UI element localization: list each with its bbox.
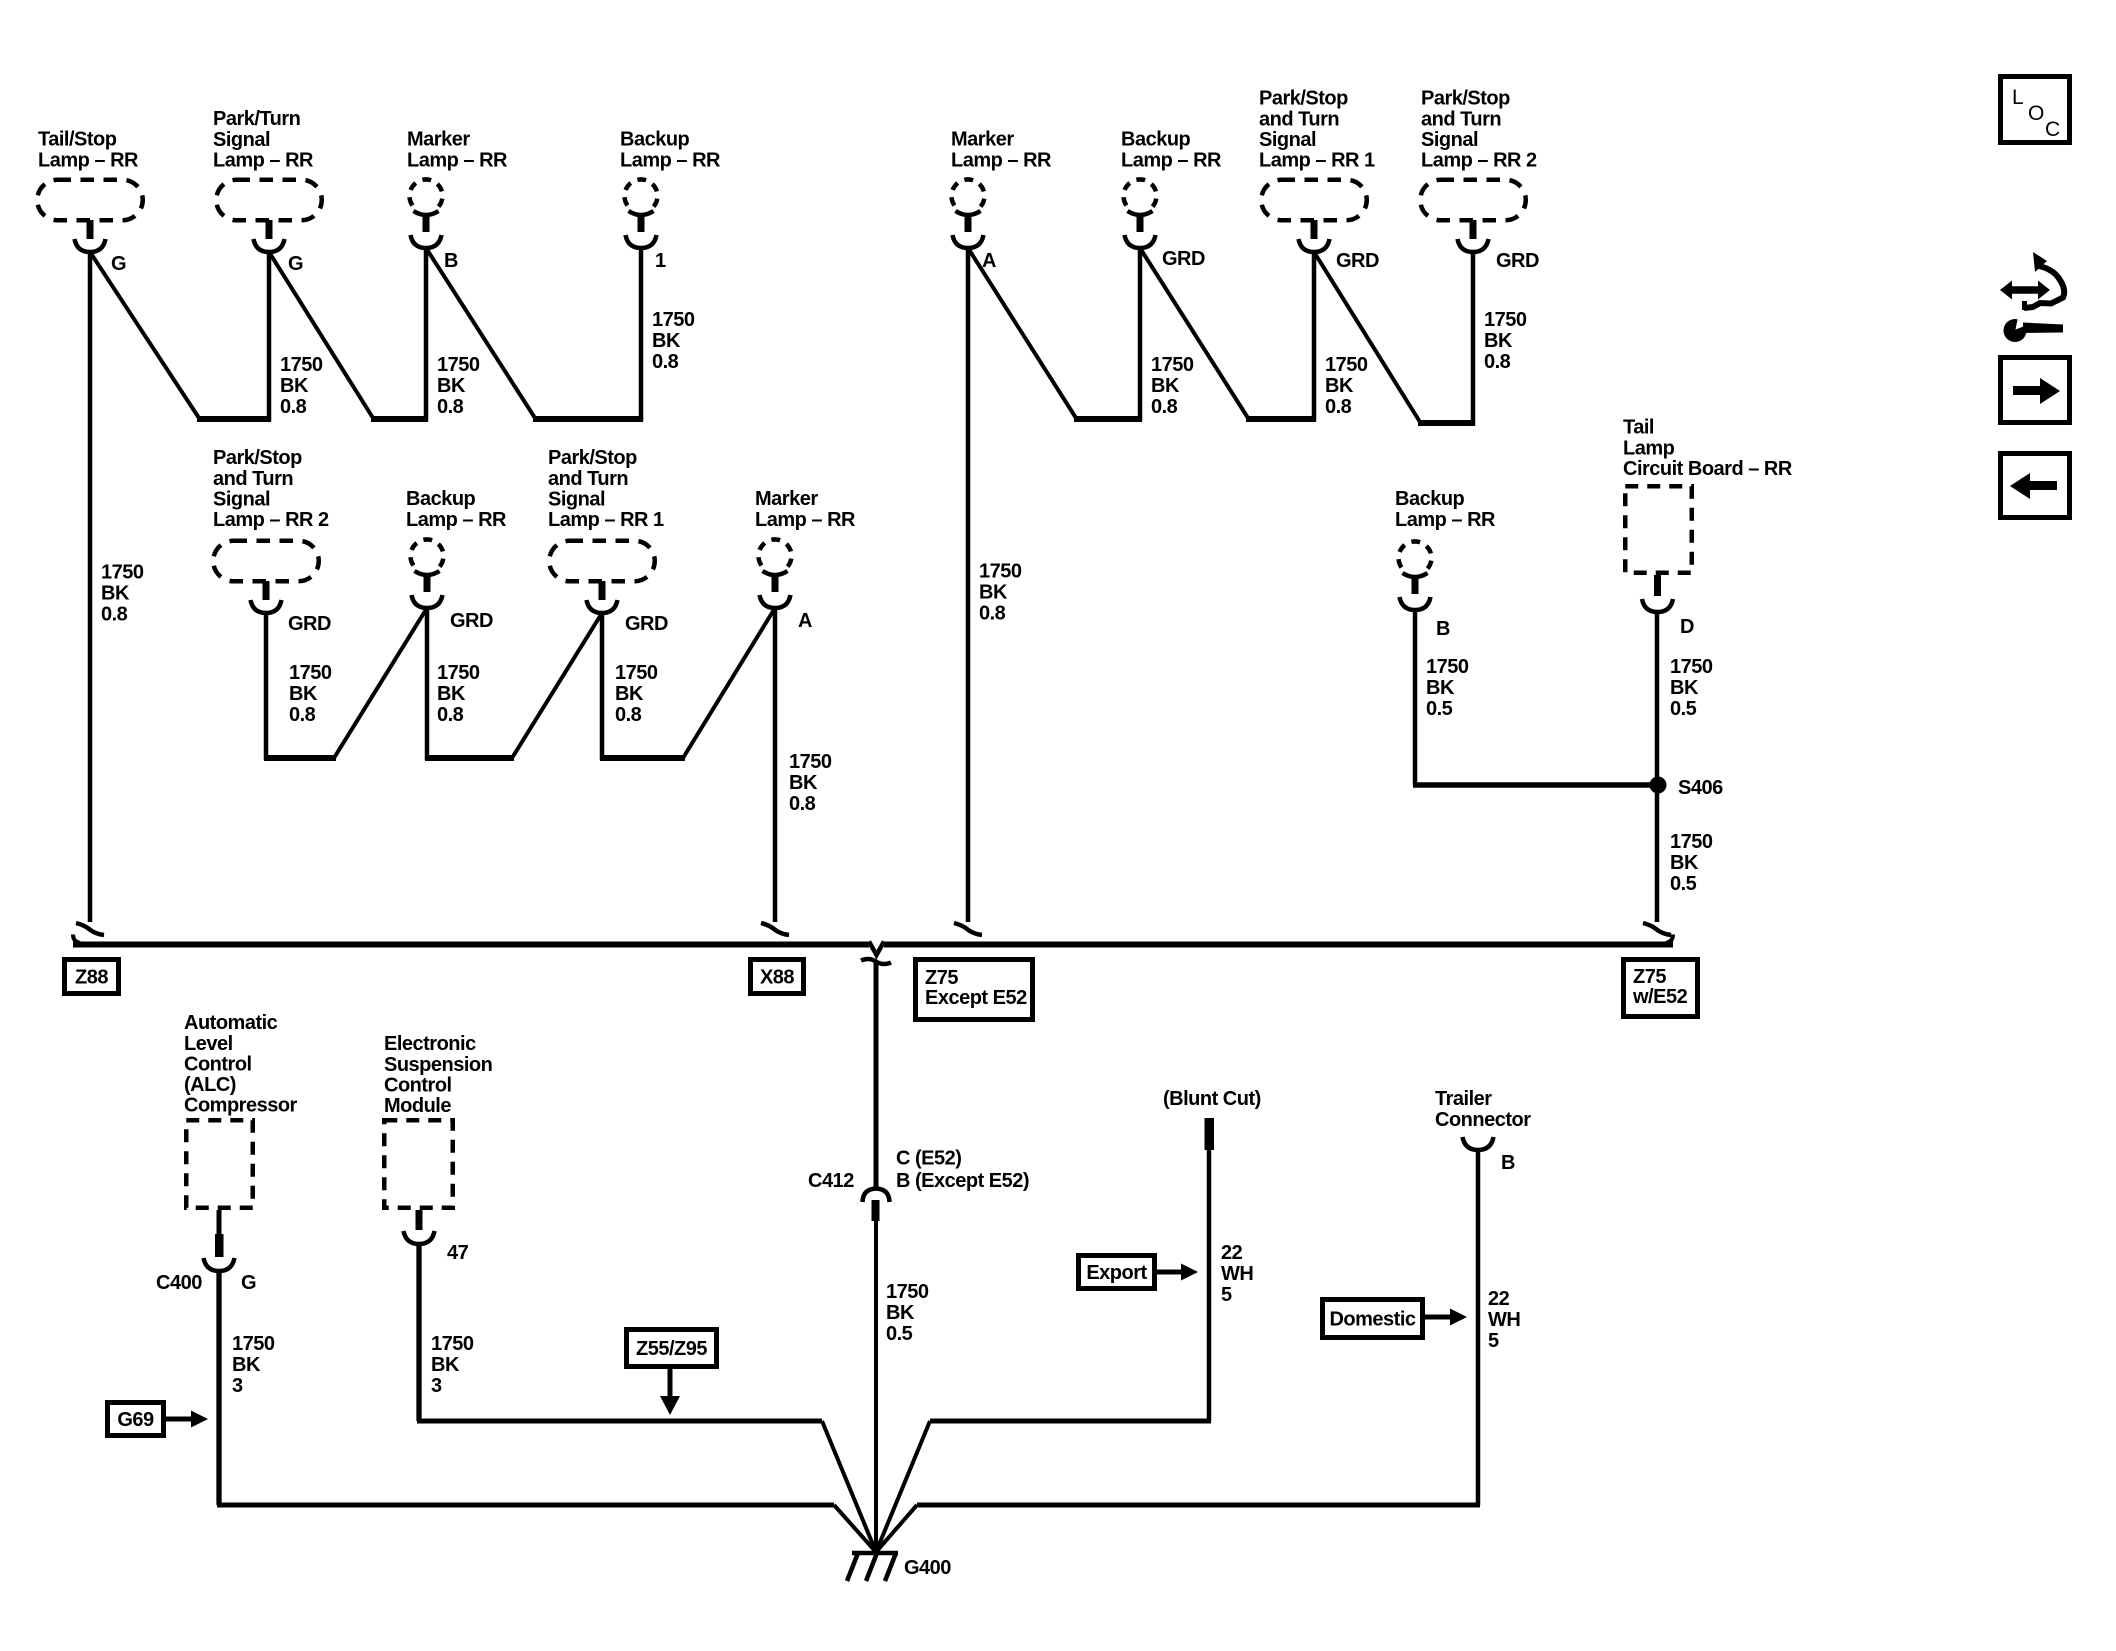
svg-text:BK: BK <box>280 375 309 397</box>
svg-text:BK: BK <box>886 1302 915 1324</box>
svg-text:Backup: Backup <box>406 488 476 510</box>
svg-text:B (Except E52): B (Except E52) <box>896 1170 1029 1192</box>
svg-text:0.8: 0.8 <box>437 396 464 418</box>
svg-text:5: 5 <box>1221 1284 1232 1306</box>
svg-text:L: L <box>2012 86 2023 109</box>
svg-text:Park/Stop: Park/Stop <box>1421 88 1510 110</box>
svg-text:Signal: Signal <box>548 488 605 510</box>
svg-text:BK: BK <box>1426 677 1455 699</box>
svg-text:C412: C412 <box>808 1170 854 1192</box>
svg-text:B: B <box>1501 1152 1515 1174</box>
svg-text:1750: 1750 <box>1151 354 1194 376</box>
svg-text:C (E52): C (E52) <box>896 1148 961 1170</box>
svg-text:G400: G400 <box>904 1557 951 1579</box>
svg-text:BK: BK <box>789 772 818 794</box>
svg-text:Marker: Marker <box>407 129 470 151</box>
svg-text:Lamp – RR: Lamp – RR <box>620 149 721 171</box>
svg-text:1750: 1750 <box>280 354 323 376</box>
svg-text:0.8: 0.8 <box>1151 396 1178 418</box>
svg-text:0.5: 0.5 <box>1670 698 1697 720</box>
svg-text:1: 1 <box>655 250 666 272</box>
svg-text:Tail/Stop: Tail/Stop <box>38 129 117 151</box>
svg-text:Lamp – RR: Lamp – RR <box>407 149 508 171</box>
svg-text:Lamp – RR: Lamp – RR <box>755 509 856 531</box>
svg-text:BK: BK <box>289 683 318 705</box>
svg-text:(ALC): (ALC) <box>184 1074 236 1096</box>
svg-text:0.5: 0.5 <box>1426 698 1453 720</box>
svg-text:Backup: Backup <box>1395 488 1465 510</box>
svg-text:0.8: 0.8 <box>979 603 1006 625</box>
svg-text:1750: 1750 <box>652 309 695 331</box>
svg-text:BK: BK <box>1151 375 1180 397</box>
svg-text:GRD: GRD <box>1496 250 1539 272</box>
svg-text:Lamp – RR: Lamp – RR <box>1121 149 1222 171</box>
svg-text:Compressor: Compressor <box>184 1095 298 1117</box>
svg-text:1750: 1750 <box>431 1333 474 1355</box>
svg-text:0.8: 0.8 <box>1484 351 1511 373</box>
svg-text:G: G <box>111 253 126 275</box>
svg-text:1750: 1750 <box>1670 656 1713 678</box>
svg-text:WH: WH <box>1488 1309 1520 1331</box>
svg-text:1750: 1750 <box>789 751 832 773</box>
svg-text:BK: BK <box>1670 677 1699 699</box>
svg-text:B: B <box>444 250 458 272</box>
svg-text:Lamp – RR: Lamp – RR <box>213 149 314 171</box>
svg-text:Lamp – RR 2: Lamp – RR 2 <box>1421 150 1537 172</box>
svg-text:WH: WH <box>1221 1263 1253 1285</box>
svg-text:1750: 1750 <box>437 354 480 376</box>
svg-text:Lamp – RR 1: Lamp – RR 1 <box>1259 150 1375 172</box>
svg-text:G: G <box>241 1272 256 1294</box>
svg-text:0.5: 0.5 <box>886 1323 913 1345</box>
svg-text:1750: 1750 <box>289 662 332 684</box>
svg-text:Z75: Z75 <box>925 967 958 989</box>
svg-text:BK: BK <box>437 683 466 705</box>
svg-text:Lamp – RR 1: Lamp – RR 1 <box>548 509 664 531</box>
svg-text:0.8: 0.8 <box>280 396 307 418</box>
svg-text:Signal: Signal <box>213 488 270 510</box>
svg-text:1750: 1750 <box>101 562 144 584</box>
svg-text:Lamp – RR: Lamp – RR <box>38 149 139 171</box>
svg-text:and Turn: and Turn <box>213 468 293 490</box>
svg-text:Level: Level <box>184 1033 233 1055</box>
svg-text:Lamp – RR: Lamp – RR <box>951 149 1052 171</box>
svg-text:BK: BK <box>232 1354 261 1376</box>
svg-text:BK: BK <box>652 330 681 352</box>
svg-text:0.8: 0.8 <box>101 604 128 626</box>
svg-text:BK: BK <box>437 375 466 397</box>
svg-text:G: G <box>288 253 303 275</box>
svg-text:BK: BK <box>1670 852 1699 874</box>
svg-text:BK: BK <box>1325 375 1354 397</box>
svg-text:1750: 1750 <box>1426 656 1469 678</box>
svg-text:Park/Turn: Park/Turn <box>213 108 300 130</box>
svg-text:B: B <box>1436 618 1450 640</box>
svg-text:Export: Export <box>1086 1262 1147 1284</box>
svg-text:and Turn: and Turn <box>548 468 628 490</box>
svg-text:1750: 1750 <box>979 561 1022 583</box>
svg-text:O: O <box>2028 102 2044 125</box>
svg-text:0.8: 0.8 <box>615 704 642 726</box>
svg-text:Connector: Connector <box>1435 1109 1531 1131</box>
svg-text:Z88: Z88 <box>75 967 108 989</box>
svg-text:47: 47 <box>447 1242 469 1264</box>
svg-text:0.8: 0.8 <box>1325 396 1352 418</box>
svg-text:5: 5 <box>1488 1330 1499 1352</box>
svg-text:Lamp: Lamp <box>1623 437 1675 459</box>
svg-text:Z55/Z95: Z55/Z95 <box>636 1338 707 1360</box>
svg-text:Tail: Tail <box>1623 417 1654 439</box>
svg-text:Lamp – RR: Lamp – RR <box>1395 509 1496 531</box>
svg-text:22: 22 <box>1488 1288 1510 1310</box>
svg-text:w/E52: w/E52 <box>1632 986 1688 1008</box>
svg-text:1750: 1750 <box>615 662 658 684</box>
svg-text:0.5: 0.5 <box>1670 873 1697 895</box>
svg-text:1750: 1750 <box>1484 309 1527 331</box>
svg-text:Automatic: Automatic <box>184 1012 278 1034</box>
svg-text:1750: 1750 <box>886 1281 929 1303</box>
svg-text:Signal: Signal <box>1259 129 1316 151</box>
svg-text:0.8: 0.8 <box>437 704 464 726</box>
svg-text:Suspension: Suspension <box>384 1054 492 1076</box>
svg-text:X88: X88 <box>760 967 794 989</box>
svg-text:Park/Stop: Park/Stop <box>548 447 637 469</box>
svg-text:1750: 1750 <box>437 662 480 684</box>
svg-text:Lamp – RR: Lamp – RR <box>406 509 507 531</box>
svg-text:Circuit Board – RR: Circuit Board – RR <box>1623 458 1793 480</box>
svg-text:BK: BK <box>979 582 1008 604</box>
svg-text:Signal: Signal <box>1421 129 1478 151</box>
svg-text:1750: 1750 <box>232 1333 275 1355</box>
svg-text:22: 22 <box>1221 1242 1243 1264</box>
svg-text:Control: Control <box>384 1074 452 1096</box>
svg-text:BK: BK <box>615 683 644 705</box>
svg-text:A: A <box>798 610 812 632</box>
svg-text:Domestic: Domestic <box>1329 1309 1415 1331</box>
svg-text:Module: Module <box>384 1095 451 1117</box>
svg-text:Backup: Backup <box>620 129 690 151</box>
svg-text:GRD: GRD <box>450 610 493 632</box>
svg-text:S406: S406 <box>1678 777 1723 799</box>
svg-text:A: A <box>982 250 996 272</box>
svg-text:BK: BK <box>101 583 130 605</box>
svg-text:3: 3 <box>431 1375 442 1397</box>
svg-text:Park/Stop: Park/Stop <box>213 447 302 469</box>
svg-text:Electronic: Electronic <box>384 1033 476 1055</box>
svg-text:3: 3 <box>232 1375 243 1397</box>
svg-text:GRD: GRD <box>1162 248 1205 270</box>
svg-text:0.8: 0.8 <box>652 351 679 373</box>
svg-text:Except E52: Except E52 <box>925 987 1027 1009</box>
svg-text:Control: Control <box>184 1053 252 1075</box>
svg-text:1750: 1750 <box>1670 831 1713 853</box>
svg-text:GRD: GRD <box>625 613 668 635</box>
svg-text:Signal: Signal <box>213 129 270 151</box>
svg-text:GRD: GRD <box>1336 250 1379 272</box>
svg-text:0.8: 0.8 <box>289 704 316 726</box>
svg-text:C400: C400 <box>156 1272 202 1294</box>
svg-text:Marker: Marker <box>951 129 1014 151</box>
svg-text:Marker: Marker <box>755 488 818 510</box>
svg-text:and Turn: and Turn <box>1421 108 1501 130</box>
svg-text:GRD: GRD <box>288 613 331 635</box>
svg-text:and Turn: and Turn <box>1259 108 1339 130</box>
svg-text:D: D <box>1680 616 1694 638</box>
svg-text:Park/Stop: Park/Stop <box>1259 88 1348 110</box>
svg-text:C: C <box>2045 118 2060 141</box>
svg-text:BK: BK <box>1484 330 1513 352</box>
svg-text:(Blunt Cut): (Blunt Cut) <box>1163 1088 1261 1110</box>
svg-text:1750: 1750 <box>1325 354 1368 376</box>
svg-text:Lamp – RR 2: Lamp – RR 2 <box>213 509 329 531</box>
svg-text:0.8: 0.8 <box>789 793 816 815</box>
svg-text:Trailer: Trailer <box>1435 1088 1492 1110</box>
svg-text:BK: BK <box>431 1354 460 1376</box>
svg-text:Z75: Z75 <box>1633 966 1666 988</box>
svg-text:Backup: Backup <box>1121 129 1191 151</box>
svg-text:G69: G69 <box>117 1409 154 1431</box>
